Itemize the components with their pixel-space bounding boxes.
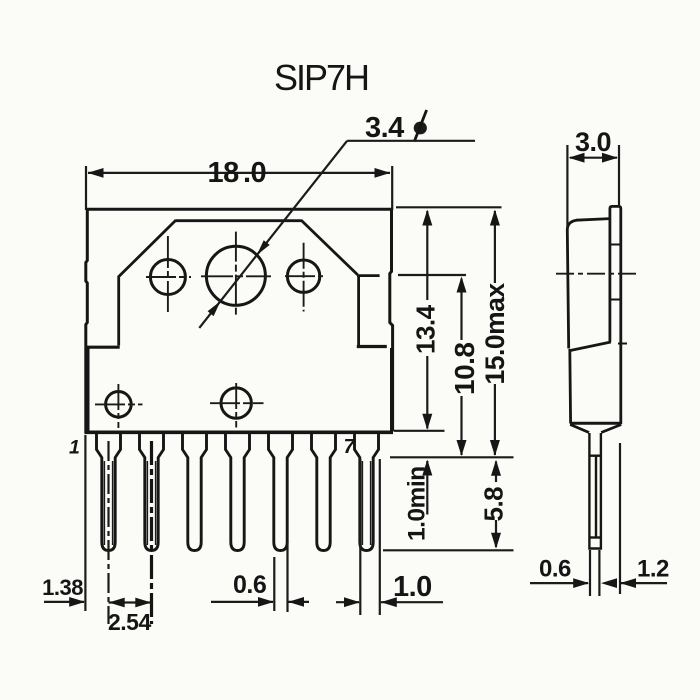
svg-text:0.6: 0.6 — [539, 556, 571, 583]
side view horizontal centerline — [556, 273, 639, 275]
right-side reference line at lead shoulder (seating) — [390, 456, 514, 458]
centerline crosshairs lower-middle hole — [210, 383, 264, 428]
right-side reference line at ear top (10.8) — [398, 274, 466, 276]
extension line from body left edge down — [84, 435, 86, 611]
dimension 18.0 — [86, 157, 392, 210]
dimension 2.54 — [108, 598, 152, 635]
dimension 3.0 (side view) — [567, 127, 619, 228]
side view tab plate — [610, 206, 621, 424]
pin 1 inner wall lines — [104, 461, 112, 545]
svg-text:18: 18 — [208, 157, 240, 189]
lower hole middle — [221, 388, 251, 418]
pin 1 — [97, 433, 121, 551]
pin 1 centerline — [107, 441, 109, 624]
dimension 10.8 — [449, 277, 480, 457]
mounting hole center (3.4 dia) — [206, 246, 265, 305]
svg-text:2.54: 2.54 — [108, 609, 151, 635]
dimension 15.0max — [480, 210, 510, 457]
dimension 1.0min — [404, 460, 433, 542]
label 3.4 dia with leader — [199, 110, 475, 328]
svg-text:3.4: 3.4 — [365, 112, 404, 144]
pin number label 7 — [344, 436, 356, 458]
title SIP7H — [274, 57, 368, 98]
pin 7 inner wall lines — [362, 461, 370, 545]
pin number label 1 — [69, 437, 80, 459]
centerline crosshairs top-right hole — [285, 243, 323, 312]
pin 2 inner wall lines — [147, 461, 155, 545]
pin 3 — [183, 433, 207, 551]
mounting hole left (small, top row) — [150, 260, 185, 295]
mounting hole right (small, top row) — [287, 260, 319, 292]
front view chamfered inner outline (heatsink boundary) — [85, 220, 387, 347]
centerline crosshairs top-left hole — [146, 236, 191, 312]
right-side reference line top edge — [396, 206, 502, 208]
right-side reference line at pin tips — [383, 549, 514, 551]
0.6 extension lines under pin 5 — [274, 541, 287, 612]
pin 7 — [355, 433, 379, 551]
svg-text:7: 7 — [344, 436, 356, 458]
side view body outline — [567, 219, 621, 433]
centerline crosshairs lower-left hole — [95, 384, 143, 428]
pin 6 — [312, 433, 336, 551]
phi symbol — [414, 122, 427, 135]
front view body outline — [85, 209, 394, 433]
svg-text:1.2: 1.2 — [637, 556, 669, 583]
dimension 1.0 (pin 7 width) — [336, 571, 443, 607]
dimension 13.4 — [411, 210, 441, 430]
svg-text:1.38: 1.38 — [42, 575, 83, 600]
svg-text:10.8: 10.8 — [449, 343, 480, 396]
svg-text:3.0: 3.0 — [575, 127, 611, 157]
dimension 0.6 (front) — [211, 571, 309, 607]
lower hole left — [106, 392, 132, 418]
svg-text:1.0min: 1.0min — [404, 466, 431, 541]
right-side reference line at body bottom (13.4) — [394, 430, 445, 432]
centerline crosshairs big hole — [201, 232, 271, 318]
dimension 0.6 (side pin) — [530, 550, 617, 596]
svg-text:5.8: 5.8 — [479, 487, 509, 522]
dimension 1.2 (side, pin to tab face) — [620, 443, 669, 594]
pin 2 centerline — [150, 441, 153, 624]
side view pin — [589, 433, 601, 549]
pin 7 width extension lines — [360, 459, 380, 615]
dimension 5.8 — [479, 460, 509, 549]
svg-text:1: 1 — [69, 437, 80, 459]
svg-text:13.4: 13.4 — [411, 304, 441, 354]
pin 2 — [140, 433, 164, 551]
pin 5 — [269, 433, 293, 551]
svg-text:0.6: 0.6 — [233, 571, 266, 599]
svg-text:.0: .0 — [243, 157, 266, 189]
svg-text:1.0: 1.0 — [393, 571, 432, 603]
side view tab tick marks — [610, 245, 627, 344]
svg-text:15.0max: 15.0max — [480, 283, 510, 385]
pin 4 — [226, 433, 250, 551]
svg-text:SIP7H: SIP7H — [274, 57, 368, 98]
dimension 1.38 — [42, 575, 85, 607]
